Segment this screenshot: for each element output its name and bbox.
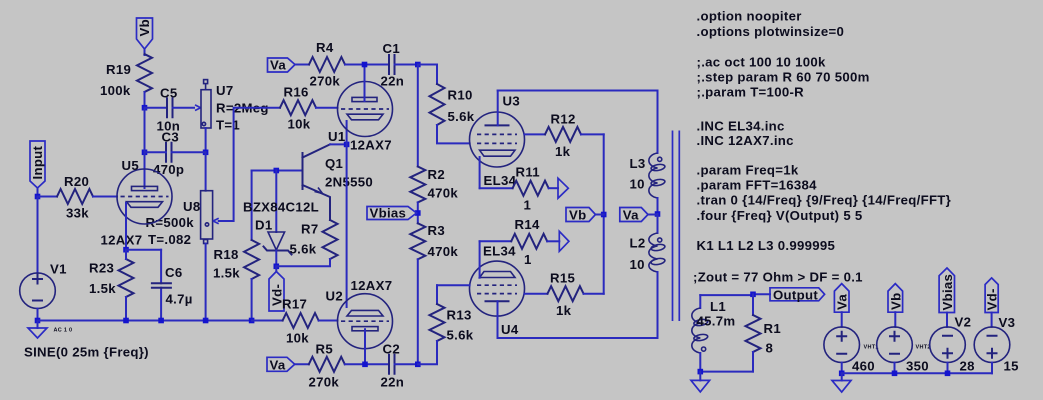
node junction xyxy=(344,142,350,148)
resistor R18 xyxy=(213,171,259,321)
node junction xyxy=(362,362,368,368)
capacitor C2 xyxy=(381,342,405,390)
svg-text:EL34: EL34 xyxy=(484,173,517,188)
wire (U4 plate to transformer bottom) xyxy=(498,337,658,339)
resistor R13 xyxy=(418,285,474,364)
flag Vd- (supply) xyxy=(985,278,1000,313)
resistor R23 xyxy=(89,250,134,321)
node junction xyxy=(274,264,280,270)
svg-text:10: 10 xyxy=(630,257,645,272)
svg-text:470k: 470k xyxy=(428,244,459,259)
wire xyxy=(93,196,117,198)
node junction xyxy=(142,150,148,156)
svg-text:15: 15 xyxy=(1004,359,1019,374)
node junction xyxy=(362,62,368,68)
triode U2 12AX7 (mirrored) xyxy=(326,278,393,364)
svg-text:R20: R20 xyxy=(64,174,89,189)
wire (U5 cathode) xyxy=(125,203,127,250)
inductor L1 xyxy=(692,295,736,372)
svg-text:R13: R13 xyxy=(447,308,472,323)
svg-text:5.6k: 5.6k xyxy=(447,328,474,343)
capacitor C3 xyxy=(145,130,206,178)
wire (ground bus) xyxy=(38,320,253,322)
node junction xyxy=(698,369,704,375)
svg-text:350: 350 xyxy=(906,359,929,374)
wire (Q1 base net) xyxy=(252,170,303,172)
flag Vbias xyxy=(367,206,417,221)
svg-text:1.5k: 1.5k xyxy=(89,281,116,296)
source V3 (Vd- 15) xyxy=(974,313,1019,374)
wire xyxy=(345,64,389,66)
svg-text:100k: 100k xyxy=(100,83,131,98)
transformer core xyxy=(673,131,680,322)
svg-text:V3: V3 xyxy=(999,315,1016,330)
svg-text:460: 460 xyxy=(852,359,875,374)
node junction xyxy=(158,318,164,324)
svg-text:SINE(0 25m {Freq}): SINE(0 25m {Freq}) xyxy=(24,345,149,360)
svg-text:Input: Input xyxy=(30,145,45,179)
wire xyxy=(144,49,146,55)
svg-text:;Zout = 77 Ohm > DF = 0.1: ;Zout = 77 Ohm > DF = 0.1 xyxy=(693,270,863,285)
svg-text:45.7m: 45.7m xyxy=(697,314,736,329)
svg-text:470p: 470p xyxy=(153,162,184,177)
wire xyxy=(395,363,418,365)
svg-text:L3: L3 xyxy=(630,156,646,171)
svg-text:;.step param R 60 70 500m: ;.step param R 60 70 500m xyxy=(697,69,870,84)
svg-text:10k: 10k xyxy=(286,331,309,346)
wire (U3 cathode) xyxy=(479,157,481,188)
wire (U4 control grid to R13) xyxy=(437,284,470,286)
svg-text:.options plotwinsize=0: .options plotwinsize=0 xyxy=(697,24,845,39)
svg-text:EL34: EL34 xyxy=(483,244,516,259)
node junction xyxy=(892,371,898,377)
triode U1 12AX7 xyxy=(328,65,393,153)
source VHT1 (Va 460) xyxy=(824,312,879,373)
node junction xyxy=(655,211,661,217)
svg-text:U2: U2 xyxy=(326,289,343,304)
svg-text:Output: Output xyxy=(773,287,818,302)
resistor R16 xyxy=(280,85,338,132)
node junction xyxy=(750,292,756,298)
svg-text:10k: 10k xyxy=(288,117,311,132)
svg-text:R10: R10 xyxy=(448,88,473,103)
node junction xyxy=(415,210,421,216)
wire xyxy=(295,363,309,365)
node junction xyxy=(203,150,209,156)
svg-text:T=.082: T=.082 xyxy=(148,232,191,247)
svg-text:Vd-: Vd- xyxy=(985,288,1000,310)
svg-text:AC 1 0: AC 1 0 xyxy=(54,328,73,334)
svg-text:R23: R23 xyxy=(89,261,114,276)
wire xyxy=(145,107,168,109)
source VHT2 (Vb 350) xyxy=(877,312,931,373)
svg-text:R15: R15 xyxy=(550,271,575,286)
flag Vb (mid) xyxy=(566,208,604,223)
svg-text:R7: R7 xyxy=(301,222,318,237)
wire xyxy=(37,188,39,197)
svg-text:12AX7: 12AX7 xyxy=(351,278,393,293)
svg-text:U3: U3 xyxy=(503,94,520,109)
svg-text:22n: 22n xyxy=(381,74,405,89)
svg-text:U8: U8 xyxy=(183,199,200,214)
node junction xyxy=(35,194,41,200)
svg-text:K1 L1 L2 L3 0.999995: K1 L1 L2 L3 0.999995 xyxy=(697,238,836,253)
node junction xyxy=(415,62,421,68)
svg-text:12AX7: 12AX7 xyxy=(101,232,143,247)
svg-text:U7: U7 xyxy=(216,83,233,98)
node junction xyxy=(203,318,209,324)
svg-text:Va: Va xyxy=(835,294,850,310)
capacitor C5 xyxy=(157,86,181,134)
svg-text:1k: 1k xyxy=(556,303,572,318)
resistor R10 xyxy=(430,84,475,143)
svg-text:.INC 12AX7.inc: .INC 12AX7.inc xyxy=(697,133,794,148)
svg-text:270k: 270k xyxy=(309,375,340,390)
svg-text:L2: L2 xyxy=(630,236,646,251)
svg-text:Vb: Vb xyxy=(137,19,152,36)
svg-text:V2: V2 xyxy=(955,315,972,330)
svg-text:Va: Va xyxy=(270,357,286,372)
node junction xyxy=(249,318,255,324)
resistor R17 xyxy=(252,297,338,346)
svg-text:R11: R11 xyxy=(516,165,540,180)
wire (Va rail down) xyxy=(417,65,419,167)
ground xyxy=(28,321,47,339)
wiper arrow into U8 xyxy=(213,218,219,224)
wire xyxy=(276,262,330,266)
flag Va (bottom mid) xyxy=(267,357,295,372)
node junction xyxy=(415,362,421,368)
svg-text:10: 10 xyxy=(630,177,645,192)
svg-text:5.6k: 5.6k xyxy=(448,109,475,124)
pentode U4 EL34 (mirrored) xyxy=(470,244,525,339)
svg-text:.tran 0 {14/Freq} {9/Freq} {14: .tran 0 {14/Freq} {9/Freq} {14/Freq/FFT} xyxy=(697,193,952,208)
svg-text:R18: R18 xyxy=(214,247,239,262)
svg-text:4.7µ: 4.7µ xyxy=(166,292,193,307)
svg-text:Va: Va xyxy=(270,58,286,73)
flag Vb (supply) xyxy=(888,284,903,313)
ground (supplies) xyxy=(832,373,851,392)
svg-text:.param FFT=16384: .param FFT=16384 xyxy=(697,178,818,193)
svg-text:12AX7: 12AX7 xyxy=(350,138,392,153)
flag Va (top) xyxy=(268,58,296,73)
svg-text:2N5550: 2N5550 xyxy=(325,175,373,190)
wire (U4 cathode) xyxy=(479,241,481,277)
svg-text:U5: U5 xyxy=(122,158,139,173)
node junction xyxy=(123,318,129,324)
svg-text:R2: R2 xyxy=(428,167,445,182)
svg-text:.INC EL34.inc: .INC EL34.inc xyxy=(697,118,785,133)
potentiometer U7 xyxy=(201,80,269,133)
svg-text:1k: 1k xyxy=(555,144,571,159)
svg-text:Vbias: Vbias xyxy=(370,206,407,221)
svg-text:Vb: Vb xyxy=(569,208,586,223)
capacitor C1 xyxy=(381,41,405,89)
svg-text:C5: C5 xyxy=(160,86,177,101)
source V2 (Vbias 28) xyxy=(930,313,975,374)
wire xyxy=(144,92,146,108)
svg-text:R19: R19 xyxy=(106,62,131,77)
ground (output) xyxy=(691,372,710,392)
svg-text:22n: 22n xyxy=(381,375,405,390)
wire (output top) xyxy=(700,293,770,296)
svg-text:Vbias: Vbias xyxy=(940,274,955,311)
wire xyxy=(395,64,418,66)
svg-text:1.5k: 1.5k xyxy=(213,266,240,281)
wire (U4 screen to R15) xyxy=(525,293,548,295)
resistor R2 xyxy=(410,167,458,203)
resistor R14 xyxy=(480,217,569,267)
wire (Vb rail) xyxy=(603,134,605,293)
wire xyxy=(126,249,161,251)
node junction xyxy=(123,247,129,253)
svg-text:33k: 33k xyxy=(66,206,89,221)
pentode U3 EL34 xyxy=(470,91,525,189)
svg-text:1: 1 xyxy=(524,252,532,267)
resistor R4 xyxy=(309,40,345,89)
flag Input xyxy=(30,141,45,188)
flag Vb (top) xyxy=(137,18,153,49)
wire xyxy=(144,108,146,188)
svg-text:BZX84C12L: BZX84C12L xyxy=(243,200,319,215)
resistor R5 xyxy=(309,342,345,390)
node junction xyxy=(274,168,280,174)
svg-text:8: 8 xyxy=(766,341,774,356)
svg-text:R14: R14 xyxy=(515,217,540,232)
wire (U3 plate to transformer top) xyxy=(498,90,658,92)
svg-text:.option noopiter: .option noopiter xyxy=(697,9,802,24)
wire xyxy=(417,259,419,364)
wire xyxy=(38,196,58,198)
svg-text:R17: R17 xyxy=(282,297,307,312)
svg-text:R3: R3 xyxy=(428,223,445,238)
flag Vd- (mid) xyxy=(269,266,284,311)
svg-text:Va: Va xyxy=(623,208,639,223)
svg-text:;.ac oct 100 10 100k: ;.ac oct 100 10 100k xyxy=(697,54,827,69)
flag Output xyxy=(770,287,825,302)
svg-text:T=1: T=1 xyxy=(216,118,240,133)
wire xyxy=(219,108,280,221)
svg-text:R16: R16 xyxy=(284,85,309,100)
svg-text:470k: 470k xyxy=(428,186,459,201)
svg-text:V1: V1 xyxy=(50,262,67,277)
flag Va (mid) xyxy=(620,208,658,223)
capacitor C6 xyxy=(152,250,193,321)
wire (U1 cathode to U2 cathode) xyxy=(346,121,348,307)
svg-text:C3: C3 xyxy=(162,130,179,145)
resistor R12 xyxy=(545,112,604,160)
resistor R15 xyxy=(548,271,604,319)
svg-text:VHT2: VHT2 xyxy=(916,345,931,351)
svg-text:270k: 270k xyxy=(310,74,341,89)
resistor R1 xyxy=(746,294,781,371)
wire (U3 screen to R12) xyxy=(525,133,546,135)
svg-text:R5: R5 xyxy=(316,342,333,357)
potentiometer U8 xyxy=(146,152,213,320)
svg-text:R4: R4 xyxy=(316,40,334,55)
transistor Q1 2N5550 xyxy=(303,144,374,220)
svg-text:C1: C1 xyxy=(383,41,400,56)
zener diode D1 BZX84C12L xyxy=(243,171,319,267)
svg-text:R1: R1 xyxy=(764,321,781,336)
wire (supply bus) xyxy=(842,372,992,374)
resistor R3 xyxy=(410,223,458,259)
node junction xyxy=(601,212,607,218)
wire xyxy=(295,64,309,66)
svg-text:Q1: Q1 xyxy=(325,156,343,171)
svg-text:.four {Freq} V(Output) 5 5: .four {Freq} V(Output) 5 5 xyxy=(697,208,863,223)
wire xyxy=(418,65,437,85)
resistor R11 xyxy=(480,165,569,213)
wire xyxy=(417,202,419,223)
resistor R7 xyxy=(290,220,338,262)
svg-text:1: 1 xyxy=(524,198,532,213)
wire xyxy=(173,107,195,109)
resistor R19 xyxy=(100,54,152,98)
svg-text:Vb: Vb xyxy=(888,293,903,310)
wire xyxy=(345,363,389,365)
svg-text:C6: C6 xyxy=(165,265,182,280)
inductor L2 xyxy=(630,214,666,338)
svg-text:U1: U1 xyxy=(328,129,345,144)
source V1 xyxy=(20,197,149,360)
wire xyxy=(700,371,753,373)
wiper arrow into U7 xyxy=(195,105,201,111)
flag Va (supply) xyxy=(834,284,849,313)
svg-text:.param Freq=1k: .param Freq=1k xyxy=(697,163,799,178)
wire xyxy=(205,128,207,152)
svg-text:U4: U4 xyxy=(501,322,519,337)
node junction xyxy=(142,105,148,111)
svg-text:;.param T=100-R: ;.param T=100-R xyxy=(697,85,805,100)
node junction xyxy=(945,371,951,377)
resistor R20 xyxy=(57,174,93,221)
node junction xyxy=(35,318,41,324)
text spice directives xyxy=(697,9,952,254)
svg-text:5.6k: 5.6k xyxy=(290,242,317,257)
triode U5 12AX7 xyxy=(101,158,173,247)
svg-text:D1: D1 xyxy=(255,218,272,233)
svg-text:R12: R12 xyxy=(551,112,576,127)
svg-text:L1: L1 xyxy=(710,299,726,314)
flag Vbias (supply) xyxy=(939,268,955,313)
svg-text:C2: C2 xyxy=(383,342,400,357)
svg-text:28: 28 xyxy=(960,359,975,374)
inductor L3 xyxy=(630,91,666,215)
node junction xyxy=(839,371,845,377)
